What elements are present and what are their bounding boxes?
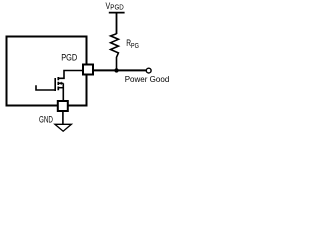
svg-text:GND: GND	[39, 114, 53, 124]
svg-text:PGD: PGD	[61, 53, 77, 63]
svg-text:PG: PG	[131, 43, 139, 50]
svg-text:Power Good: Power Good	[125, 75, 170, 84]
svg-text:PGD: PGD	[110, 4, 124, 11]
